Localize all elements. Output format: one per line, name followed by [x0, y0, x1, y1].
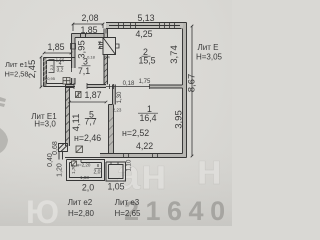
svg-text:н0,95: н0,95 — [45, 76, 56, 81]
svg-text:2,3: 2,3 — [49, 64, 54, 70]
small stove box icons — [63, 78, 83, 167]
svg-text:5,13: 5,13 — [137, 13, 154, 23]
svg-text:3,2: 3,2 — [57, 68, 64, 74]
stove between rooms 3 and 2 — [103, 38, 116, 55]
svg-text:1,70: 1,70 — [71, 165, 76, 174]
svg-text:1,15: 1,15 — [97, 40, 102, 49]
svg-text:1,85: 1,85 — [80, 25, 97, 35]
svg-text:2,0: 2,0 — [94, 170, 101, 176]
svg-text:Лит Е: Лит Е — [198, 43, 219, 52]
svg-text:1,87: 1,87 — [84, 90, 101, 100]
fraction bars of room labels — [82, 56, 159, 118]
svg-text:н=2,20: н=2,20 — [77, 163, 91, 168]
svg-text:1,05: 1,05 — [107, 182, 124, 192]
svg-text:15,5: 15,5 — [138, 56, 155, 66]
wall room5 left — [66, 85, 70, 147]
svg-text:Лит е1: Лит е1 — [5, 60, 28, 69]
svg-text:Н=2,58: Н=2,58 — [4, 70, 28, 79]
svg-text:1,83: 1,83 — [80, 175, 89, 180]
annex e3 — [106, 162, 126, 181]
wall right (outer) — [183, 23, 187, 158]
svg-text:2,0: 2,0 — [82, 183, 94, 193]
annex e1 walls — [44, 58, 47, 87]
divider wall right part — [150, 85, 183, 88]
svg-text:4,11: 4,11 — [71, 114, 82, 132]
dim line 1,85 annex — [43, 52, 73, 55]
divider wall rooms 3,2 | 5,1 — [65, 85, 106, 88]
svg-text:1,30: 1,30 — [117, 91, 123, 103]
svg-text:Н=3,05: Н=3,05 — [196, 53, 223, 62]
annex interior micro labels — [45, 58, 102, 181]
west stub box — [59, 144, 68, 152]
svg-text:7,1: 7,1 — [78, 66, 90, 76]
svg-text:8,67: 8,67 — [187, 74, 198, 93]
svg-text:7,7: 7,7 — [84, 117, 96, 127]
annex e1 hatch — [44, 59, 47, 82]
svg-text:Н=3,0: Н=3,0 — [34, 120, 56, 129]
svg-text:4,25: 4,25 — [135, 29, 152, 39]
svg-text:16,4: 16,4 — [139, 113, 156, 123]
svg-text:Н=2,80: Н=2,80 — [68, 209, 95, 218]
wall left (door gap, then to divider) — [72, 78, 76, 85]
dim line 1,87 room5 — [68, 101, 107, 104]
svg-text:0,68: 0,68 — [52, 141, 59, 155]
wall rooms 5|1 vertical — [109, 85, 116, 154]
svg-text:0,18: 0,18 — [123, 81, 135, 87]
svg-text:Н=2,65: Н=2,65 — [114, 209, 141, 218]
svg-text:0,18: 0,18 — [87, 55, 96, 60]
svg-text:4,22: 4,22 — [136, 141, 153, 151]
svg-text:0,40: 0,40 — [47, 153, 54, 167]
paper background — [0, 0, 232, 226]
svg-text:н=2,52: н=2,52 — [122, 128, 149, 138]
svg-text:0,4: 0,4 — [104, 55, 110, 60]
svg-text:Лит е3: Лит е3 — [115, 198, 140, 207]
svg-text:3,74: 3,74 — [169, 45, 180, 64]
svg-text:2,23: 2,23 — [113, 108, 122, 113]
dim line 2,45 annex left — [40, 56, 43, 89]
wall top-left (room 3) — [72, 34, 105, 38]
wall left upper — [72, 34, 76, 69]
annex e2 — [67, 160, 105, 181]
svg-text:н=2,46: н=2,46 — [74, 133, 101, 143]
wall rooms 3|2 vertical — [104, 29, 108, 38]
dim line 8,67 right — [191, 25, 194, 158]
window on left wall — [71, 44, 76, 50]
small dimension labels — [47, 40, 151, 177]
svg-text:н: н — [196, 145, 223, 194]
dim line 2,08 top — [73, 24, 103, 31]
svg-text:1,85: 1,85 — [47, 42, 64, 52]
wall bottom main — [65, 154, 187, 158]
svg-text:2,08: 2,08 — [81, 13, 98, 23]
divider thin dim line (opening 0,18 1,75) — [106, 86, 150, 88]
svg-text:Лит е2: Лит е2 — [68, 198, 93, 207]
svg-text:2,45: 2,45 — [27, 60, 38, 79]
svg-text:Ю: Ю — [26, 194, 59, 226]
watermark left-edge blob — [0, 128, 8, 153]
wall jog x106 — [104, 29, 106, 34]
wall top-right (room 2) — [106, 23, 187, 29]
svg-text:1,10: 1,10 — [127, 159, 133, 171]
wall band fills — [65, 23, 187, 158]
watermark letters — [116, 145, 223, 199]
svg-text:3,95: 3,95 — [174, 110, 185, 129]
watermark circle logo — [26, 194, 59, 230]
svg-text:1,75: 1,75 — [139, 79, 151, 85]
svg-text:1,20: 1,20 — [57, 163, 64, 177]
